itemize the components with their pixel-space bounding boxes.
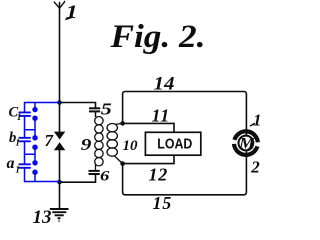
wire link b1/a1 (25, 153, 36, 155)
svg-text:Fig. 2.: Fig. 2. (109, 19, 205, 55)
label 1 (antenna) (66, 1, 78, 23)
motor M letter (238, 134, 256, 152)
node contact dots on middle rail (32, 107, 37, 175)
capacitor 5 (89, 108, 100, 111)
svg-text:1: 1 (15, 138, 20, 148)
svg-text:5: 5 (101, 100, 112, 119)
label 1 base slash (65, 17, 73, 20)
motor M brush arc bottom (233, 144, 257, 156)
wire 11 (123, 123, 174, 132)
wire blue middle rail segment 1 (34, 103, 36, 110)
node junction blue-bottom/cap6/ground (57, 180, 62, 185)
wire blue left rail seg3 (24, 141, 26, 164)
wire blue left rail seg4 (24, 168, 26, 182)
output loop wire 14/15 (123, 92, 247, 195)
capacitor b1 (19, 137, 30, 139)
tick for label 1 (250, 123, 255, 126)
svg-text:12: 12 (149, 165, 169, 185)
motor M brush arc top (234, 130, 258, 142)
diode pair 7 upper triangle (54, 132, 65, 140)
wire blue bottom (25, 181, 60, 183)
capacitor 6 (89, 171, 100, 174)
wire blue middle rail segment 2 (34, 118, 36, 138)
label 5 (101, 100, 112, 119)
diode pair 7 lower triangle (54, 142, 65, 150)
wire main rail upper (junction to diode) (59, 103, 61, 134)
svg-text:1: 1 (15, 166, 20, 176)
wire main rail lower (diode to ground) (59, 149, 61, 209)
inductor coil 10 (107, 123, 123, 163)
antenna left prong (54, 2, 59, 8)
wire to capacitor 5 (60, 103, 96, 108)
svg-text:11: 11 (152, 106, 171, 126)
capacitor a1 (19, 163, 30, 165)
svg-text:a: a (7, 155, 15, 172)
svg-text:7: 7 (45, 131, 55, 150)
wire blue top (25, 102, 60, 104)
svg-text:14: 14 (154, 75, 175, 95)
node junction coil10 bottom (120, 161, 125, 166)
capacitor C1 (19, 111, 30, 113)
svg-text:9: 9 (81, 136, 92, 155)
motor M body circle (239, 136, 254, 151)
svg-text:M: M (238, 134, 256, 152)
antenna mast wire (59, 3, 61, 103)
ground 13 (50, 209, 69, 221)
wire blue left rail seg2 (24, 116, 26, 138)
node junction coil10 top (120, 121, 125, 126)
svg-text:6: 6 (100, 167, 110, 184)
wire 12 (123, 155, 174, 163)
svg-text:LOAD: LOAD (157, 137, 192, 153)
svg-text:2: 2 (250, 157, 260, 176)
label 9 (81, 136, 92, 155)
svg-text:10: 10 (123, 138, 139, 154)
svg-text:1: 1 (253, 110, 262, 129)
wire blue middle rail segment 3 (34, 147, 36, 163)
wire blue middle rail segment 4 (34, 172, 36, 181)
svg-text:1: 1 (17, 113, 22, 123)
wire blue left rail seg1 (24, 103, 26, 113)
svg-text:15: 15 (153, 193, 173, 213)
node junction antenna/cap5/blue-top (57, 100, 62, 105)
antenna right prong (60, 1, 65, 8)
label 6 (100, 167, 110, 184)
wire cap5 to coil9 (95, 111, 97, 117)
wire link C1/b1 (25, 129, 36, 131)
inductor coil 9 (95, 117, 103, 171)
svg-text:13: 13 (33, 207, 52, 225)
wire capacitor 6 to rail (60, 174, 96, 182)
blue tuner block (19, 103, 59, 182)
LOAD box (145, 132, 200, 155)
